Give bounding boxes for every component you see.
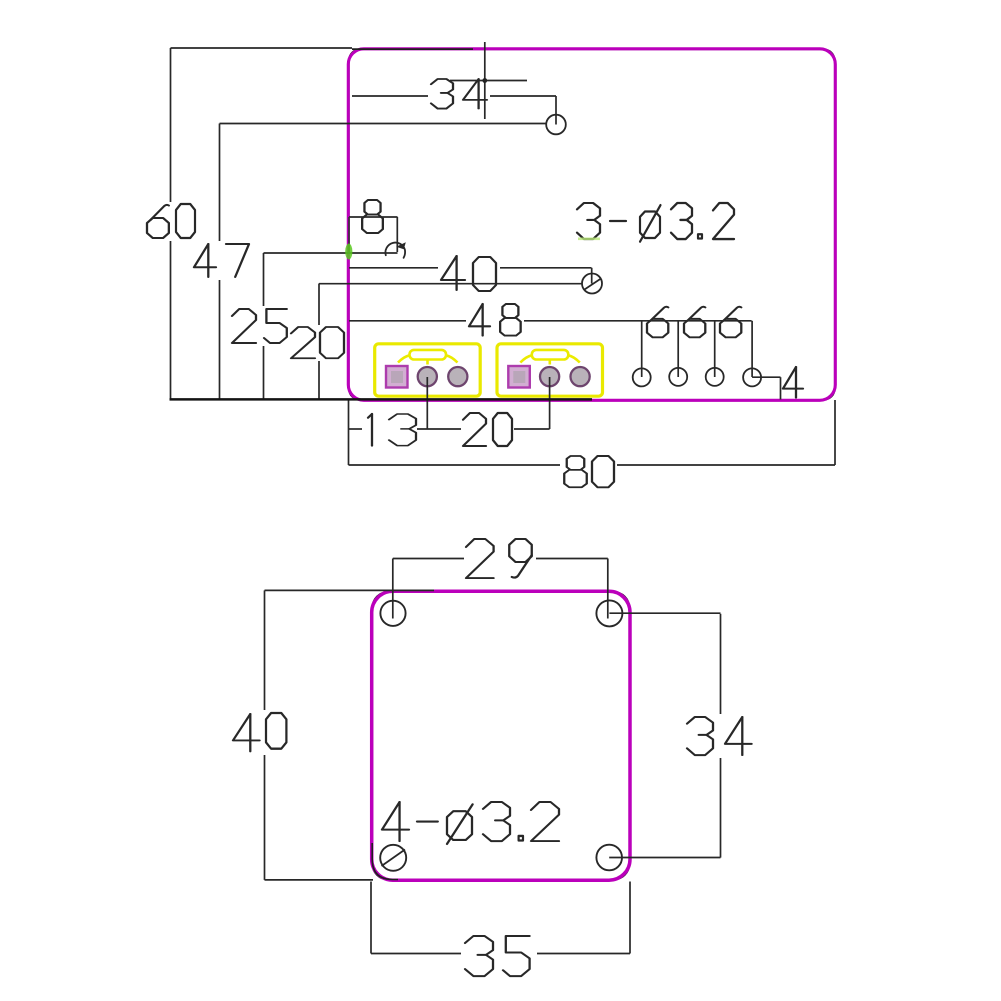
connector K1 latch tab (410, 350, 447, 360)
dim text 13 (368, 414, 416, 446)
dim text 34 bottom (687, 717, 752, 755)
dim 34 vertical line (720, 614, 722, 714)
dim 40 extension top (over plate edge) (265, 589, 435, 591)
board outline top view (black underlay) (349, 49, 835, 399)
center cross horizontal (450, 80, 527, 82)
dim text 20 bottom (463, 413, 512, 446)
dim 34 drop to hole H1 (555, 96, 557, 125)
dim 40 vertical line (264, 590, 266, 710)
artifact green under label (578, 238, 600, 241)
connector K2 terminal square pad (508, 366, 530, 388)
dim 48 line (349, 320, 466, 322)
dim 40 drop to hole H3 (591, 268, 593, 284)
left witness below board (348, 400, 350, 465)
mounting hole H3 (582, 274, 602, 294)
plate hole TR (596, 600, 622, 626)
dim 47 vertical line (219, 124, 221, 242)
top edge black overlay segment (352, 48, 473, 50)
connector K1 terminal square pad (386, 366, 408, 388)
dim 29 witness left into hole TL (392, 559, 394, 619)
connector K1 round pad B (448, 367, 467, 386)
pin hole P3 (706, 368, 724, 386)
dim text 29 (466, 539, 532, 578)
dim text 40 bottom (233, 713, 286, 751)
dim 4 leader (752, 376, 780, 378)
dim 35 witness left (370, 882, 372, 954)
dim text 8 (362, 200, 383, 233)
plate hole TL (380, 601, 405, 626)
centerline vertical (484, 42, 486, 119)
dim 35 line (371, 953, 461, 955)
dim 29 witness right into hole TR (607, 559, 609, 619)
dim 34 extension top from hole TR (609, 612, 720, 614)
dim 80 line (349, 464, 561, 466)
center point dot (482, 78, 487, 83)
mounting hole H2 leader arc (385, 243, 405, 258)
label 3-dia3.2 (577, 203, 734, 242)
dim text 40 top (441, 256, 496, 291)
dim 29 line (393, 558, 464, 560)
dim 60 vertical line (170, 48, 172, 202)
mounting plate outline (black underlay) (372, 592, 629, 880)
mounting hole H2 arrowhead (396, 242, 406, 249)
dim text 6b (684, 307, 705, 337)
dim 40 line (349, 267, 438, 269)
dim 25 vertical line (263, 253, 265, 306)
dim 20 vertical line (318, 284, 320, 326)
dim 60 extension top (171, 47, 353, 49)
connector K1 latch arms (398, 355, 458, 364)
dim text 25 (232, 309, 287, 343)
plate corner black overlay (372, 843, 398, 880)
hole H3 slash (585, 279, 602, 290)
label 4-dia3.2 (382, 802, 559, 844)
dim 13/20 witness from pad1 (426, 377, 428, 429)
pin hole P4 (743, 368, 761, 386)
plate hole BL slash (382, 850, 406, 867)
mounting hole H1 (546, 115, 566, 135)
pin hole P1 (633, 368, 651, 386)
dim 8 lines (349, 216, 398, 218)
dim text 4 right (783, 367, 803, 398)
dim 35 witness right (629, 882, 631, 954)
connector K1 round pad A (418, 367, 437, 386)
dim text 6c (720, 307, 741, 337)
baseline bottom (black over magenta) (170, 398, 593, 401)
dim text 35 (465, 936, 530, 976)
connector K2 latch tab (532, 350, 569, 360)
dim 34 line (352, 95, 428, 97)
connector K2 round pad B (571, 367, 590, 386)
dim text 48 (469, 304, 521, 336)
dim 13/20 line (349, 428, 363, 430)
relay connector K1 outline (375, 344, 481, 396)
dim text 20 left (291, 327, 344, 358)
pin hole witness lines (641, 321, 643, 377)
connector K2 latch arms (520, 355, 580, 364)
dim text 60 (147, 204, 195, 238)
dim text 6a (647, 307, 668, 337)
dim 47 extension to hole H1 (220, 123, 547, 125)
plate hole BR (596, 845, 622, 871)
dim text 80 (564, 456, 614, 487)
artifact green blob on left edge (345, 244, 352, 260)
mounting plate outline (magenta) (372, 591, 630, 880)
dim text 34 top (431, 79, 487, 109)
right witness below board (834, 400, 836, 465)
board outline top view (magenta) (348, 49, 835, 401)
dim 20 extension to hole H3 (319, 283, 583, 285)
dim 40 extension bottom (265, 879, 374, 881)
dim 25 extension to hole H2 (264, 252, 398, 254)
relay connector K2 outline (497, 344, 603, 396)
dim 13/20 witness from pad2 (549, 377, 551, 429)
connector K2 round pad A (540, 367, 559, 386)
dim text 47 (194, 244, 249, 277)
plate hole BL (380, 845, 406, 871)
pin hole P2 (669, 368, 687, 386)
dim 34 extension bottom from hole BR (609, 857, 720, 859)
